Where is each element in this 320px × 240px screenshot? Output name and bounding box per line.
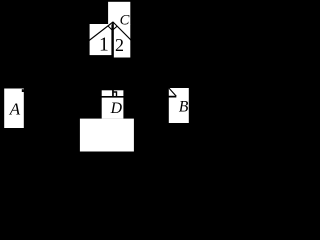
svg-text:D: D (110, 100, 123, 117)
junction at A (22, 89, 24, 92)
label background C (108, 2, 130, 25)
svg-text:C: C (120, 13, 130, 29)
label background D lower (80, 119, 134, 152)
label background A (4, 89, 24, 129)
label background D upper (102, 90, 124, 118)
svg-text:2: 2 (115, 35, 124, 55)
label background B (169, 88, 189, 123)
svg-text:A: A (9, 100, 21, 119)
label background 1 (90, 24, 112, 55)
line CB (113, 22, 176, 96)
line CA (24, 22, 113, 91)
svg-text:B: B (179, 99, 189, 116)
line AB (24, 91, 177, 97)
right angle marker at C (108, 26, 117, 30)
line CD (112, 22, 114, 97)
right angle marker at D (114, 92, 117, 97)
svg-text:1: 1 (99, 35, 109, 56)
label background 2 (114, 24, 131, 58)
